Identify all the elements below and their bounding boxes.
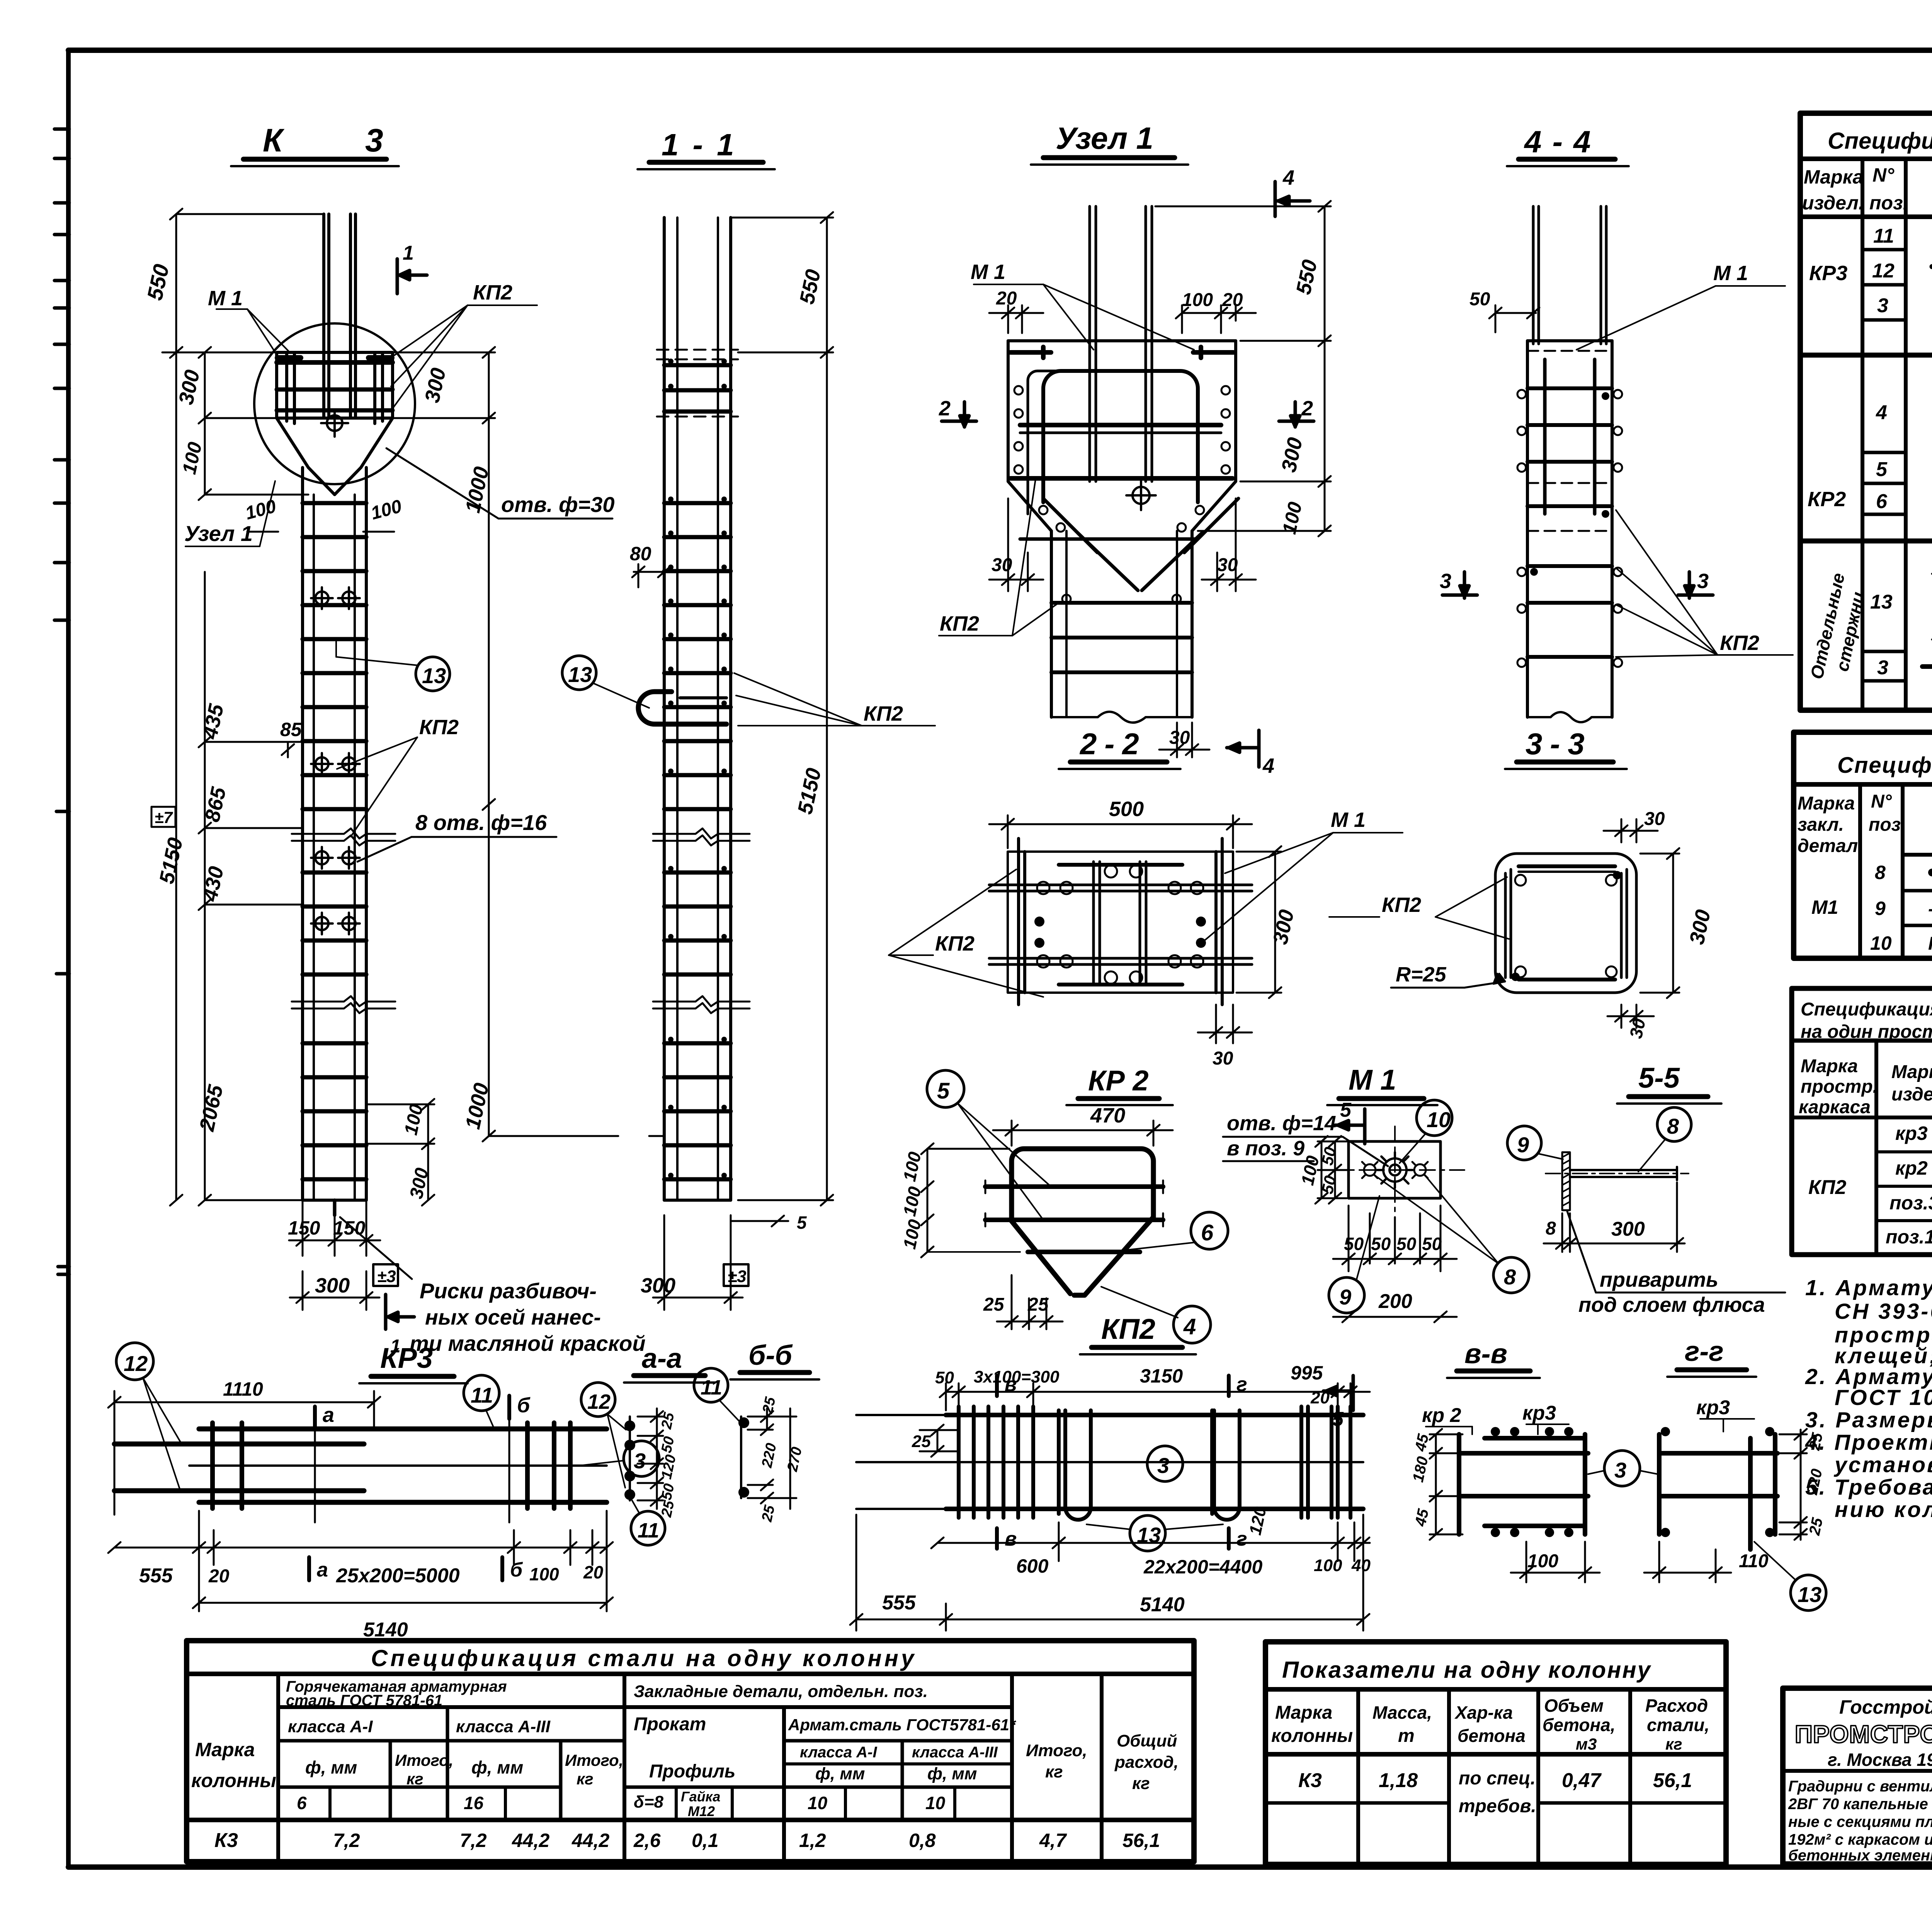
svg-text:11: 11 [638,1519,659,1542]
KP2 dim 555 5140 [850,1515,1369,1631]
KR3 middle bar poz3 [189,1464,607,1467]
1-1 stirrup rungs [664,365,731,1179]
balloon 13 KP2 [1130,1515,1165,1551]
svg-text:4: 4 [1876,401,1887,424]
svg-text:Госстрой СССР: Госстрой СССР [1839,1696,1932,1718]
g-g drawing [1659,1434,1777,1549]
svg-text:отв. ф=14: отв. ф=14 [1227,1112,1336,1135]
svg-text:7,2: 7,2 [333,1830,360,1851]
svg-text:г: г [1236,1373,1247,1396]
svg-text:детал.: детал. [1798,836,1863,856]
uzel shaft rungs [1051,531,1192,717]
K3 break lines [292,828,395,1013]
KR2 bent bar poz4 [1012,1149,1153,1295]
svg-text:180: 180 [1410,1455,1432,1483]
svg-text:11: 11 [471,1383,493,1407]
svg-text:в поз. 9: в поз. 9 [1227,1137,1304,1160]
K3 left dimension chain 550 [162,209,324,1206]
svg-text:12: 12 [587,1390,611,1413]
svg-text:30: 30 [1644,809,1665,829]
uzel 30 dims bottom left [989,498,1043,591]
svg-text:М 1: М 1 [1349,1064,1396,1096]
svg-text:10: 10 [1427,1107,1451,1132]
svg-text:±3: ±3 [377,1267,396,1286]
svg-text:Итого,: Итого, [395,1751,453,1769]
svg-text:в: в [1005,1528,1017,1550]
section mark 3 right [1678,572,1713,598]
svg-text:Показатели на одну колонну: Показатели на одну колонну [1282,1657,1651,1683]
section mark a bottom [307,1557,311,1580]
4-4 top plate dashed [1527,351,1612,531]
svg-text:М 1: М 1 [208,287,243,310]
svg-text:50: 50 [935,1368,954,1387]
svg-text:Спецификация стали на одну зак: Спецификация стали на одну закладную дет… [1837,753,1932,778]
svg-text:300: 300 [1685,908,1715,947]
view KR3: flat cage [108,1342,659,1641]
1-1 dim 5 small [731,1216,788,1226]
svg-text:44,2: 44,2 [571,1830,610,1851]
svg-text:100: 100 [899,1218,925,1251]
2-2 bolt circles [1037,865,1203,984]
svg-text:7,2: 7,2 [460,1830,487,1851]
svg-text:Марка: Марка [195,1739,255,1760]
svg-text:25: 25 [759,1503,778,1524]
svg-text:бетона,: бетона, [1543,1715,1616,1735]
svg-text:N°: N° [1872,164,1895,186]
uzel 30 dims bottom right [1202,498,1256,591]
KR3 stirrups [213,1423,570,1509]
svg-text:М12: М12 [688,1803,715,1819]
svg-text:кр 2: кр 2 [1422,1404,1461,1427]
svg-text:ф, мм: ф, мм [305,1757,357,1777]
K3 bottom dims 150 150 300 [289,1200,380,1310]
svg-text:Узел 1: Узел 1 [1056,121,1153,155]
svg-text:600: 600 [1016,1555,1049,1577]
svg-text:0,47: 0,47 [1562,1769,1602,1792]
svg-text:10: 10 [925,1793,946,1813]
svg-text:0,1: 0,1 [692,1830,719,1851]
svg-text:56,1: 56,1 [1122,1830,1160,1851]
svg-text:кг: кг [1045,1762,1063,1781]
svg-text:20: 20 [996,288,1017,309]
balloon 5 [927,1070,964,1107]
KR3 dim 1110 [108,1391,380,1515]
svg-text:М 1: М 1 [971,260,1005,284]
svg-text:Армат.сталь ГОСТ5781-61*: Армат.сталь ГОСТ5781-61* [788,1716,1016,1734]
svg-text:колонны: колонны [1271,1726,1353,1746]
svg-text:кр3: кр3 [1895,1122,1928,1144]
svg-text:100: 100 [401,1102,427,1137]
svg-text:бетонных элементов: бетонных элементов [1788,1847,1932,1864]
svg-text:ф, мм: ф, мм [927,1764,977,1783]
uzel stirrup dots [1014,386,1230,603]
svg-text:отв. ф=30: отв. ф=30 [501,492,614,517]
M1 bottom dims 50x4 200 [1333,1206,1457,1322]
svg-text:ф, мм: ф, мм [471,1757,523,1777]
svg-text:50: 50 [1344,1234,1364,1254]
svg-text:2065: 2065 [195,1083,228,1134]
svg-text:2-2: 2-2 [1079,727,1147,761]
svg-text:30: 30 [992,555,1012,575]
svg-text:5: 5 [937,1078,950,1104]
KP2 mid bar [856,1461,1363,1463]
svg-text:КР3: КР3 [1809,262,1847,285]
3-3 dim 30 top [1604,819,1658,842]
svg-text:100: 100 [1314,1556,1342,1575]
svg-text:4-4: 4-4 [1524,124,1602,159]
svg-text:в: в [1005,1373,1017,1396]
svg-text:100: 100 [899,1150,925,1183]
svg-text:Итого,: Итого, [1026,1741,1087,1760]
svg-text:300: 300 [315,1274,350,1297]
balloon 13 for 1-1 [562,656,596,690]
4-4 column outline [1527,341,1612,717]
svg-text:300: 300 [420,366,450,405]
3-3 inner bars [1505,866,1627,980]
svg-text:Объем: Объем [1544,1696,1604,1716]
svg-text:300: 300 [641,1274,675,1297]
svg-text:50: 50 [1469,289,1490,310]
svg-text:Узел 1: Узел 1 [184,521,253,546]
svg-text:закл.: закл. [1798,815,1844,835]
view KP2: plan cage [850,1313,1371,1631]
svg-text:3: 3 [1697,570,1709,593]
svg-text:Марка: Марка [1798,793,1855,814]
svg-text:Гайка: Гайка [681,1789,720,1804]
svg-text:а: а [317,1559,328,1581]
section mark 2 left [942,402,976,427]
balloon 11 for b-b [694,1368,728,1402]
svg-text:КП2: КП2 [1382,893,1421,917]
KP2 right group stirrups [1301,1406,1350,1518]
svg-text:100: 100 [899,1185,925,1218]
4-4 bottom break [1527,712,1612,722]
5-5 dim 300 [1570,1182,1685,1252]
svg-text:КП2: КП2 [864,702,903,725]
svg-text:45: 45 [1412,1432,1432,1453]
3-3 dim 30 bottom [1607,1005,1654,1028]
2-2 dim 300 right [1236,846,1281,998]
svg-text:установкой пластмассовых или б: установкой пластмассовых или бетонных фи… [1833,1452,1932,1477]
balloon 12 [116,1343,153,1380]
svg-text:50: 50 [1318,1174,1340,1195]
1-1 right dim 550 [731,212,833,358]
svg-text:10: 10 [808,1793,828,1813]
3-3 rounded square [1495,854,1636,993]
table 5: steel spec per column [187,1641,1194,1862]
2-2 plate outline [1008,852,1233,993]
svg-text:класса А-III: класса А-III [456,1717,551,1736]
KR3 dim 5140 [193,1597,613,1608]
svg-text:каркаса: каркаса [1799,1097,1871,1117]
view 5-5: plate edge [1507,1062,1785,1316]
svg-text:8 отв. ф=16: 8 отв. ф=16 [415,810,547,835]
svg-text:М 1: М 1 [1331,808,1366,832]
section mark 4 top [1275,182,1310,216]
1-1 column outer lines [664,218,731,1200]
svg-text:13: 13 [1798,1582,1821,1607]
K3 shaft [303,468,366,1200]
svg-text:КП2: КП2 [473,281,512,304]
view 1-1: column section elevation [562,128,935,1310]
M1 left dims 50 50 100 [1315,1136,1349,1204]
svg-text:КР2: КР2 [1808,488,1846,511]
KP2 bottom dim chain [931,1515,1370,1631]
svg-text:КП2: КП2 [940,612,979,635]
svg-text:сталь ГОСТ 5781-61: сталь ГОСТ 5781-61 [286,1692,442,1709]
svg-text:8: 8 [1504,1265,1516,1289]
svg-text:Расход: Расход [1645,1696,1708,1716]
svg-text:150: 150 [288,1217,320,1239]
section mark 5 top [1335,1109,1365,1144]
svg-text:20: 20 [1310,1388,1330,1407]
svg-text:Спецификация и выборка стали н: Спецификация и выборка стали на одно арм… [1828,128,1932,154]
svg-text:20: 20 [1222,290,1243,310]
1-1 top plate dashed [657,350,738,417]
svg-text:нию колонны см. в пояснительно: нию колонны см. в пояснительной записке. [1835,1497,1932,1522]
svg-text:45: 45 [1412,1507,1432,1528]
svg-text:под слоем флюса: под слоем флюса [1578,1293,1765,1316]
svg-text:8: 8 [1667,1114,1679,1138]
2-2 stud bars poz8 [989,885,1252,964]
svg-text:поз.13: поз.13 [1886,1226,1932,1248]
boxed +7 mark [151,807,175,827]
svg-text:г-г: г-г [1685,1336,1724,1367]
svg-text:4: 4 [1183,1314,1196,1339]
svg-text:класса А-I: класса А-I [288,1717,373,1736]
svg-text:1,18: 1,18 [1379,1769,1418,1792]
svg-text:кг: кг [1665,1735,1682,1753]
svg-text:5: 5 [1340,1099,1352,1121]
svg-text:30: 30 [1217,555,1238,575]
svg-text:ф, мм: ф, мм [815,1764,865,1783]
2-2 dim 30 bottom [1198,1005,1252,1043]
svg-text:Прокат: Прокат [634,1714,706,1735]
boxed +3 mark 1-1 [724,1264,748,1286]
svg-text:50: 50 [658,1482,678,1502]
a-a dim chain [638,1408,663,1509]
svg-text:110: 110 [1739,1551,1769,1571]
view KR2: bent frame [899,1065,1228,1343]
KR2 left dim chain 100x3 [921,1143,1020,1257]
svg-text:80: 80 [630,543,651,565]
svg-text:Масса,: Масса, [1372,1702,1432,1723]
balloon 9 [1329,1277,1364,1313]
1-1 stirrup end dots [668,359,727,1178]
uzel center hole [1126,481,1156,510]
balloon 11 [464,1375,499,1411]
svg-text:9: 9 [1339,1285,1351,1309]
KR2 dims 25 25 [997,1275,1063,1329]
svg-text:М 1: М 1 [1713,262,1748,285]
b-b section [740,1417,742,1498]
uzel bars poz11 [1090,206,1152,481]
svg-text:3: 3 [634,1449,646,1473]
view 4-4: column side section [1440,124,1793,722]
5-5 anchor bar [1570,1167,1677,1180]
svg-text:М1: М1 [1811,896,1838,918]
svg-text:К3: К3 [1298,1769,1322,1792]
KR3 bottom dim chain [108,1511,613,1611]
5-5 dim 8 [1544,1213,1584,1252]
svg-text:КП2: КП2 [419,716,459,739]
svg-text:Гайка М12: Гайка М12 [1928,934,1932,954]
svg-text:поз.: поз. [1869,815,1906,835]
balloon 8 for 5-5 [1657,1107,1691,1141]
svg-text:г. Москва 1974г: г. Москва 1974г [1828,1750,1932,1770]
section mark 1 top [397,259,427,294]
svg-text:0,8: 0,8 [909,1830,936,1851]
svg-text:16: 16 [464,1793,484,1813]
svg-text:300: 300 [174,368,204,407]
svg-text:5150: 5150 [793,766,826,816]
svg-text:кг: кг [1132,1774,1150,1793]
uzel top dim 20 left [989,305,1043,333]
svg-text:100: 100 [529,1564,559,1584]
svg-text:8: 8 [1546,1218,1556,1239]
svg-text:Риски разбивоч-: Риски разбивоч- [420,1279,597,1303]
balloon 11 for a-a [631,1511,665,1545]
boxed +3 mark K3 [373,1264,398,1286]
M1 plate [1349,1141,1440,1198]
svg-text:30: 30 [1213,1048,1233,1069]
svg-text:КП2: КП2 [1101,1313,1155,1345]
svg-text:ГОСТ 10922- 64.: ГОСТ 10922- 64. [1835,1385,1932,1410]
svg-text:К 3: К 3 [263,122,420,158]
KR2 cross bars poz5/6 [985,1187,1163,1252]
4-4 inner bars poz11 edge [1545,359,1595,514]
balloon 8 [1493,1257,1529,1293]
svg-text:б: б [510,1559,523,1581]
view Uzel 1: head detail [939,121,1331,777]
section mark b bottom [500,1557,504,1580]
svg-text:56,1: 56,1 [1653,1769,1692,1792]
svg-text:±7: ±7 [155,808,173,827]
svg-text:б-б: б-б [748,1340,793,1371]
svg-text:300: 300 [1611,1218,1645,1240]
svg-text:бетона: бетона [1458,1726,1526,1746]
svg-text:на один пространственный карк: на один пространственный каркас [1801,1022,1932,1042]
svg-text:издел.: издел. [1891,1084,1932,1105]
K3 left dim chain segments [199,572,303,1206]
5-5 plate hatched [1562,1152,1570,1210]
svg-text:кг: кг [406,1770,423,1788]
svg-text:85: 85 [280,719,302,740]
K3 dim chain left inner [199,347,308,500]
4-4 stirrup dots [1517,390,1622,667]
svg-text:20: 20 [208,1566,230,1587]
svg-text:25: 25 [983,1294,1005,1315]
KP2 cage [946,1415,1363,1509]
view 3-3: shaft section [1329,727,1715,1040]
svg-text:т: т [1398,1726,1415,1746]
svg-text:555: 555 [139,1565,173,1587]
svg-text:13: 13 [1870,591,1893,613]
4-4 bars above [1533,206,1606,344]
K3 axis holes (8 otv f16) [311,587,360,934]
uzel head outline [1008,341,1236,717]
svg-text:Хар-ка: Хар-ка [1454,1702,1513,1723]
uzel cage rounded frame [1010,371,1233,539]
1-1 dim 80 [632,564,670,587]
svg-text:8: 8 [1875,862,1886,883]
svg-text:5-5: 5-5 [1638,1062,1680,1094]
svg-text:приварить: приварить [1600,1268,1718,1291]
svg-text:простр.: простр. [1801,1077,1878,1097]
svg-text:N°: N° [1871,791,1892,812]
svg-text:4,7: 4,7 [1039,1830,1067,1851]
svg-text:класса А-III: класса А-III [912,1744,998,1761]
svg-text:1110: 1110 [223,1378,263,1400]
svg-text:430: 430 [198,864,228,904]
svg-text:поз.: поз. [1869,192,1908,214]
svg-text:кг: кг [577,1770,594,1788]
balloon 13 K3 [416,657,450,691]
svg-text:5. Требования к бетону и стали: 5. Требования к бетону и стали и указани… [1805,1475,1932,1500]
balloon 3 between [1604,1451,1640,1486]
svg-text:Марка: Марка [1891,1062,1932,1082]
svg-text:9: 9 [1875,898,1886,919]
v-v drawing [1459,1434,1588,1534]
margin tick marks [54,129,69,1274]
svg-text:КП2: КП2 [1720,631,1759,655]
svg-text:5140: 5140 [1140,1594,1185,1616]
section cut lines a b [315,1419,509,1522]
svg-text:44,2: 44,2 [512,1830,550,1851]
svg-text:а: а [323,1403,334,1427]
svg-text:1. Арматурные изделия изготовл: 1. Арматурные изделия изготовлять в соот… [1805,1276,1932,1300]
M1 nut circle [1377,1152,1413,1188]
svg-text:КП2: КП2 [1808,1176,1846,1199]
section mark below K3 [386,1294,414,1329]
v-v dims 45 180 45 [1430,1429,1463,1540]
K3 rebar bars above head [324,214,355,417]
svg-text:3: 3 [1614,1458,1626,1482]
4-4 rungs [1527,388,1612,657]
uzel corner plates M1 [1010,347,1233,358]
svg-text:±3: ±3 [728,1267,747,1286]
svg-text:22х200=4400: 22х200=4400 [1143,1556,1262,1578]
svg-text:Спецификация арматурных издели: Спецификация арматурных изделий [1801,999,1932,1020]
balloon 4 [1173,1306,1211,1343]
view K3: column elevation [142,122,664,1357]
2-2 dim 500 [989,815,1252,848]
notes primechaniya [1805,1249,1932,1522]
b-b dims [748,1408,796,1509]
svg-text:КП2: КП2 [935,932,975,955]
svg-text:120: 120 [658,1453,679,1481]
detail circle uzel 1 [254,323,415,484]
svg-text:192м² с каркасом из железо-: 192м² с каркасом из железо- [1788,1831,1932,1848]
M1 hole circles [1362,1162,1428,1178]
svg-text:1-1: 1-1 [662,128,748,162]
svg-text:4. Проектную толщину защитных: 4. Проектную толщину защитных слоев бето… [1805,1430,1932,1455]
1-1 break lines [653,828,750,1013]
svg-text:а-а: а-а [642,1343,682,1374]
svg-text:5140: 5140 [363,1619,408,1641]
svg-text:Градирни с вентиляторами: Градирни с вентиляторами [1788,1778,1932,1795]
g-g dims 25 220 25 right [1779,1429,1807,1540]
3-3 dim 300 right [1640,848,1679,998]
svg-text:3: 3 [1877,294,1888,317]
svg-text:Профиль: Профиль [649,1761,735,1782]
svg-text:50: 50 [658,1435,678,1454]
table 3: spec of reinforcement items per space frame [1792,988,1932,1255]
balloon 12 for a-a [581,1383,615,1417]
svg-text:R=25: R=25 [1396,963,1447,986]
svg-text:435: 435 [198,702,228,742]
view M1: embedded plate [1223,1064,1529,1430]
